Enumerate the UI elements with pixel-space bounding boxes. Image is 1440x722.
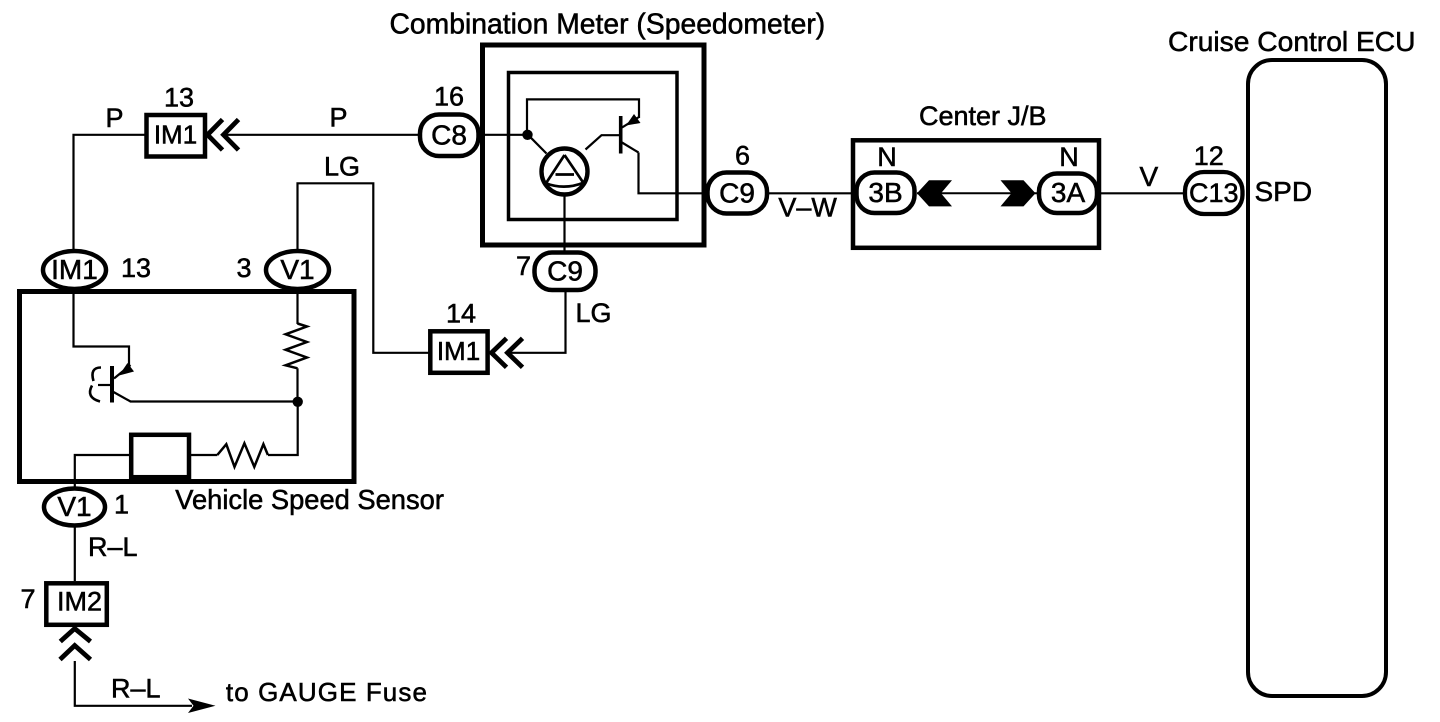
wire V1 (3) to resistor R1 <box>296 291 298 324</box>
box Cruise Control ECU <box>1248 60 1386 696</box>
wire 3A to C13 <box>1098 192 1185 194</box>
arrow chevrons below IM2 <box>60 629 91 660</box>
transistor Q1 base lead <box>586 135 620 149</box>
svg-text:12: 12 <box>1194 141 1224 171</box>
transistor Q2 base lead <box>98 384 110 386</box>
svg-text:C13: C13 <box>1189 178 1239 208</box>
arrowhead to GAUGE fuse <box>188 699 216 714</box>
pickup block <box>131 435 189 477</box>
wire node to resistor R2 <box>268 402 298 455</box>
connector 3B <box>857 173 915 214</box>
wire meter M1 to C9 (7) <box>563 195 565 253</box>
connector C8 <box>420 115 479 157</box>
svg-text:16: 16 <box>434 82 464 112</box>
wire IM1 (14) to C9 (7) <box>506 292 566 353</box>
junction block IM1 (13) <box>147 115 206 157</box>
svg-text:IM1: IM1 <box>437 336 480 366</box>
svg-text:1: 1 <box>114 490 129 520</box>
box speedometer inner <box>509 73 678 220</box>
wire IM1 block to connector IM1 <box>74 135 147 250</box>
svg-text:Cruise Control ECU: Cruise Control ECU <box>1168 25 1416 57</box>
svg-text:P: P <box>330 103 348 133</box>
svg-text:C9: C9 <box>547 256 583 287</box>
svg-text:Combination Meter (Speedometer: Combination Meter (Speedometer) <box>390 8 826 40</box>
transistor Q2 collector arrow <box>119 363 134 376</box>
svg-text:R–L: R–L <box>111 674 161 704</box>
connector C9 (7) <box>535 253 596 291</box>
svg-text:V: V <box>1140 161 1159 192</box>
resistor R2 (horizontal) <box>217 443 268 467</box>
transistor Q1 collector diagonal <box>622 143 639 153</box>
arrow chevrons at IM1 (14) <box>492 338 523 367</box>
wire LG from V1 (3) to junction block IM1 (14) <box>298 183 431 352</box>
wire C9 (6) to 3B <box>766 192 856 194</box>
transistor Q2 emitter diagonal <box>114 392 131 402</box>
wire junction up and over to transistor Q1 emitter <box>527 99 639 134</box>
wire Q2 emitter to node <box>130 400 298 402</box>
node junction in speedometer <box>522 130 532 140</box>
svg-text:Center J/B: Center J/B <box>919 101 1047 131</box>
transistor Q1 emitter diagonal <box>622 117 639 128</box>
svg-text:SPD: SPD <box>1255 176 1313 207</box>
wire R1 to node <box>296 368 298 402</box>
transistor Q1 bar <box>619 116 623 154</box>
wire C8 to junction node <box>479 134 529 136</box>
box Center J/B <box>853 140 1099 248</box>
svg-text:13: 13 <box>121 253 151 283</box>
wire P from junction block IM1 to C8 <box>224 134 420 136</box>
connector V1 (1) <box>44 489 105 526</box>
svg-text:7: 7 <box>20 584 35 614</box>
connector 3A <box>1039 174 1097 214</box>
wire junction to meter M1 <box>528 135 547 154</box>
transistor Q2 collector diagonal <box>114 365 131 379</box>
wire Q1 collector to C9 (6) <box>639 153 707 194</box>
svg-text:IM2: IM2 <box>57 587 102 617</box>
wire pickup block to V1 (1) <box>75 455 129 487</box>
svg-text:V1: V1 <box>280 254 314 285</box>
svg-text:IM1: IM1 <box>51 254 98 285</box>
connector V1 (3) <box>266 251 329 289</box>
svg-text:3A: 3A <box>1051 177 1086 208</box>
wire R2 to pickup block <box>191 454 217 456</box>
node junction in VSS <box>293 397 303 407</box>
svg-text:N: N <box>1059 142 1079 172</box>
svg-text:3B: 3B <box>868 177 902 208</box>
junction block IM1 (14) <box>430 331 487 373</box>
svg-text:3: 3 <box>236 253 251 283</box>
svg-text:to GAUGE Fuse: to GAUGE Fuse <box>226 677 428 707</box>
wire V1 (1) to IM2 <box>74 528 76 582</box>
transistor Q2 bar <box>110 366 114 403</box>
arrow chevrons at IM1 (13) <box>208 120 239 151</box>
svg-text:IM1: IM1 <box>154 120 197 150</box>
meter M1 speedometer coil <box>542 149 588 195</box>
transistor Q2 case arc lower <box>90 386 100 402</box>
wire to GAUGE fuse <box>75 661 192 706</box>
resistor R1 (vertical) <box>286 324 307 369</box>
wire IM1 connector to transistor Q2 <box>74 291 130 367</box>
svg-text:V–W: V–W <box>778 193 837 223</box>
svg-text:LG: LG <box>576 298 612 328</box>
svg-text:13: 13 <box>164 83 194 113</box>
box Combination Meter (Speedometer) outer <box>483 45 705 245</box>
svg-text:14: 14 <box>446 299 476 329</box>
arrow toward 3B <box>917 180 952 206</box>
wire between 3B and 3A <box>917 192 1037 194</box>
svg-text:Vehicle Speed Sensor: Vehicle Speed Sensor <box>175 484 444 515</box>
svg-text:LG: LG <box>324 152 360 182</box>
svg-text:C8: C8 <box>431 120 467 151</box>
connector C13 <box>1185 172 1243 214</box>
svg-text:6: 6 <box>735 141 750 171</box>
svg-text:P: P <box>106 103 124 133</box>
transistor Q1 emitter arrow <box>626 114 641 126</box>
connector IM1 (left) <box>43 251 106 289</box>
svg-text:7: 7 <box>516 251 531 281</box>
box Vehicle Speed Sensor <box>20 292 355 482</box>
connector C9 (6) <box>708 173 768 214</box>
svg-text:R–L: R–L <box>88 532 138 562</box>
transistor Q2 case arc upper <box>92 368 101 382</box>
svg-text:C9: C9 <box>719 178 755 209</box>
svg-text:N: N <box>877 142 897 172</box>
svg-text:V1: V1 <box>57 491 91 522</box>
arrow toward 3A <box>1001 180 1036 206</box>
junction block IM2 (7) <box>46 583 107 625</box>
